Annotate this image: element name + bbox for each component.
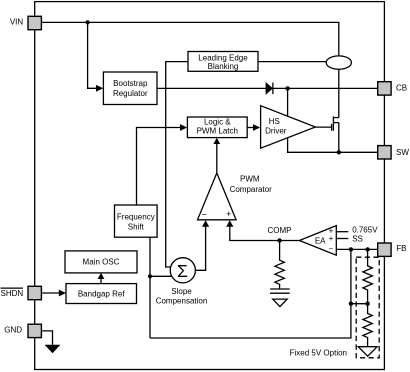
svg-text:SW: SW [396, 148, 409, 157]
svg-text:SS: SS [352, 235, 363, 244]
op-amp HS Driver [261, 106, 316, 149]
resistor COMP R [275, 241, 284, 290]
svg-text:−: − [202, 210, 207, 220]
pin GND [28, 324, 41, 337]
svg-text:+: + [329, 234, 334, 243]
current source ellipse [326, 56, 351, 69]
wire PWM comparator output to logic latch [216, 144, 218, 174]
capacitor COMP C [270, 288, 290, 290]
diode D1 [266, 83, 273, 95]
node COMP [277, 238, 281, 242]
wire bottom rail [150, 249, 351, 338]
svg-text:VIN: VIN [10, 18, 24, 27]
summer slope compensation [156, 258, 208, 306]
resistor R1 divider top [363, 249, 372, 303]
svg-text:Logic &: Logic & [204, 118, 231, 127]
svg-text:Shift: Shift [128, 223, 145, 232]
svg-text:Σ: Σ [177, 261, 188, 281]
node FB divider top left [349, 247, 353, 251]
wire bootstrap output to CB [157, 87, 378, 89]
ground divider [358, 347, 377, 357]
transistor M1 (HS MOSFET) [315, 116, 338, 152]
node SW junction [337, 150, 341, 154]
node divider mid left [349, 302, 353, 306]
dashed box Fixed 5V Option [356, 257, 379, 358]
wire COMP to PWM comparator plus [230, 226, 300, 241]
block Logic & PWM Latch [187, 117, 247, 138]
svg-text:SHDN: SHDN [1, 289, 24, 298]
svg-text:GND: GND [4, 325, 22, 334]
wire sigma to PWM comparator minus [195, 226, 205, 270]
wire EA SS input [336, 238, 348, 240]
wire frequency shift to bottom rail [149, 237, 151, 338]
wire HS driver return to SW [288, 138, 378, 153]
wire bandgap to main osc [100, 279, 102, 284]
wire SHDN to bandgap [41, 292, 59, 294]
svg-text:HS: HS [269, 117, 280, 126]
pin FB [378, 243, 391, 256]
node slope comp junction [148, 274, 152, 278]
svg-text:FB: FB [396, 244, 406, 253]
block Frequency Shift [115, 205, 158, 237]
node FB divider top right [365, 247, 369, 251]
node VIN junction [86, 20, 90, 24]
ground COMP [273, 299, 288, 307]
wire node to sigma [150, 275, 172, 277]
block Leading Edge Blanking [188, 52, 258, 72]
pin CB [378, 82, 391, 95]
svg-text:+: + [226, 209, 231, 219]
svg-text:Bootstrap: Bootstrap [113, 79, 148, 88]
svg-text:EA: EA [315, 236, 326, 245]
block Main OSC [65, 251, 137, 273]
svg-text:Leading Edge: Leading Edge [198, 53, 248, 62]
block Bootstrap Regulator [103, 72, 157, 105]
block Bandgap Ref [66, 284, 137, 304]
wire EA ref input [336, 231, 348, 233]
op-amp EA error amplifier [299, 226, 336, 256]
svg-text:Frequency: Frequency [117, 213, 155, 222]
wire ellipse to MOSFET drain [338, 69, 340, 117]
svg-text:COMP: COMP [268, 226, 292, 235]
wire mid node link [351, 303, 368, 305]
svg-text:Comparator: Comparator [230, 185, 273, 194]
op-amp PWM Comparator [198, 173, 273, 220]
wire VIN rail top [41, 22, 338, 56]
pin SW [378, 146, 391, 159]
wire LEB right to current source [258, 61, 326, 63]
svg-text:Bandgap Ref: Bandgap Ref [78, 289, 125, 298]
ground GND arrow [45, 345, 61, 353]
svg-text:Blanking: Blanking [208, 62, 239, 71]
svg-text:PWM Latch: PWM Latch [197, 127, 238, 136]
node divider mid right [365, 302, 369, 306]
wire EA inverting input from FB [336, 248, 377, 250]
svg-text:Slope: Slope [171, 287, 192, 296]
svg-text:PWM: PWM [240, 175, 260, 184]
wire GND to ground symbol [41, 331, 52, 345]
svg-text:Main OSC: Main OSC [83, 257, 120, 266]
svg-text:Regulator: Regulator [113, 89, 148, 98]
resistor R2 divider bottom [363, 304, 372, 347]
svg-text:Driver: Driver [265, 127, 287, 136]
wire VIN to bootstrap input [88, 22, 97, 88]
wire LEB left to slope compensation [166, 62, 188, 267]
wire logic latch output to HS driver [247, 127, 253, 129]
wire HS driver supply from CB node [287, 88, 289, 116]
svg-text:Compensation: Compensation [156, 297, 208, 306]
svg-text:CB: CB [396, 84, 407, 93]
svg-text:Fixed 5V Option: Fixed 5V Option [290, 348, 347, 357]
svg-text:−: − [328, 245, 333, 254]
pin SHDN [28, 286, 41, 299]
wire logic latch input from frequency shift [137, 128, 181, 206]
pin VIN [28, 16, 41, 29]
node CB junction [285, 86, 289, 90]
svg-text:0.765V: 0.765V [352, 225, 378, 234]
